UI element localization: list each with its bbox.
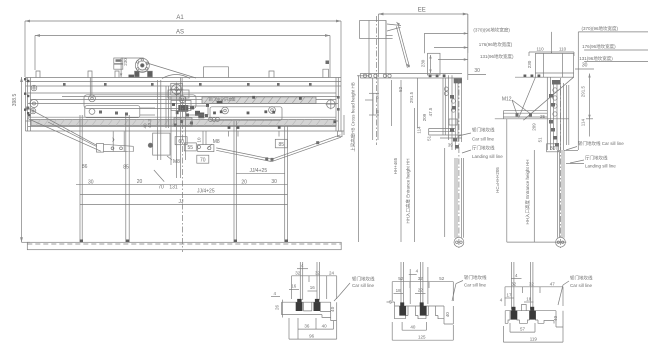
- sill2 dim 125: [392, 322, 453, 340]
- svg-text:40: 40: [322, 324, 328, 329]
- svg-text:40: 40: [410, 325, 416, 330]
- svg-text:209: 209: [531, 123, 536, 131]
- left cap bolt marks: [24, 78, 30, 116]
- svg-text:398.5: 398.5: [12, 94, 18, 107]
- right end cap: [336, 78, 344, 136]
- sill2 profile: [387, 302, 454, 324]
- svg-text:85: 85: [279, 142, 285, 148]
- svg-text:55: 55: [188, 145, 194, 151]
- mid sill leaders: [458, 133, 471, 136]
- bottom sill bar: [27, 242, 341, 249]
- svg-text:176(96地坎宽度): 176(96地坎宽度): [582, 43, 616, 50]
- svg-text:51: 51: [538, 137, 543, 143]
- bolt stack row: [209, 118, 220, 122]
- svg-text:40: 40: [553, 315, 558, 321]
- top tab 5: [323, 61, 329, 78]
- sill3 guide shoe 1: [511, 307, 517, 320]
- top tab 4: [269, 71, 274, 78]
- svg-text:131(96地坎宽度): 131(96地坎宽度): [480, 53, 514, 60]
- svg-text:Landing sill line: Landing sill line: [472, 154, 503, 159]
- svg-text:轿门地坎线: 轿门地坎线: [352, 276, 375, 283]
- sill3 guide shoe 2: [529, 307, 535, 320]
- right plate assembly: [547, 77, 569, 150]
- svg-text:20: 20: [137, 179, 143, 185]
- rail line 126.5: [28, 126, 336, 128]
- lower band bolts: [228, 120, 337, 129]
- right bottom circle: [556, 237, 566, 247]
- svg-text:110: 110: [559, 47, 567, 52]
- belt clamp dots on upper bar: [252, 96, 302, 100]
- svg-text:209: 209: [422, 113, 427, 121]
- bottom bar door ticks: [80, 240, 288, 243]
- svg-text:131: 131: [169, 185, 178, 191]
- rail line 3: [26, 85, 342, 87]
- rail line mid2: [28, 103, 338, 105]
- left end cap: [26, 78, 31, 132]
- rail bolts: [363, 74, 445, 77]
- sill3 dim row 32 32 47: [505, 287, 563, 306]
- right label stack: [578, 32, 648, 150]
- svg-text:M12: M12: [502, 97, 512, 103]
- center vane verticals: [158, 80, 169, 160]
- svg-text:25: 25: [540, 114, 546, 119]
- svg-text:110: 110: [537, 47, 545, 52]
- svg-text:30: 30: [474, 68, 480, 74]
- rail line mid: [62, 96, 338, 98]
- sill2 guide shoe 2: [420, 302, 427, 315]
- sill2 dim 40 bottom: [402, 322, 426, 330]
- svg-text:B: B: [376, 109, 379, 114]
- left roller small top: [31, 85, 37, 91]
- motor pulley: [114, 58, 196, 79]
- sill2 guide shoe 1: [399, 302, 406, 315]
- sill1 dim 4 top: [297, 263, 308, 269]
- rail line lower: [26, 120, 339, 122]
- svg-text:HH入口高度 Entrance height HH: HH入口高度 Entrance height HH: [524, 159, 531, 224]
- svg-text:291.5: 291.5: [409, 91, 414, 103]
- svg-text:291.5: 291.5: [581, 85, 586, 97]
- lower hatched track bar full: [31, 120, 336, 126]
- top tab 1: [36, 71, 40, 78]
- cross head post: [360, 16, 393, 145]
- rail bolt dots: [63, 83, 312, 86]
- left roller big: [30, 100, 38, 108]
- M12 leaders: [512, 100, 530, 113]
- svg-text:(370)(96地坎宽度): (370)(96地坎宽度): [473, 27, 510, 34]
- svg-text:Car sill line: Car sill line: [352, 283, 375, 288]
- svg-text:85: 85: [123, 165, 129, 171]
- svg-text:Landing sill line: Landing sill line: [585, 164, 616, 169]
- left roller small bottom: [30, 108, 36, 114]
- right sill lines: [564, 150, 578, 152]
- svg-text:JJ/4+25: JJ/4+25: [249, 168, 267, 174]
- svg-text:176(96地坎宽度): 176(96地坎宽度): [479, 41, 513, 48]
- sill1 door panel 2: [317, 262, 319, 300]
- rail line 93: [28, 92, 336, 94]
- sill1 guide shoe 2: [314, 299, 321, 311]
- door panel line 1: [79, 115, 81, 242]
- top tab 3: [115, 71, 119, 78]
- svg-text:Car sill line: Car sill line: [464, 282, 487, 287]
- svg-text:AS: AS: [176, 30, 184, 36]
- right end bolts: [337, 96, 340, 111]
- right arm: [216, 131, 342, 161]
- svg-text:47: 47: [550, 281, 556, 286]
- svg-text:轿门地坎线: 轿门地坎线: [570, 274, 593, 281]
- sill3 dim 4: [511, 273, 522, 279]
- svg-text:43.3: 43.3: [147, 119, 152, 128]
- dimension A1: [25, 20, 341, 131]
- sill2 door panel 1: [401, 262, 403, 303]
- svg-text:40: 40: [330, 306, 335, 312]
- svg-text:86: 86: [82, 164, 88, 170]
- svg-text:10: 10: [197, 137, 202, 143]
- dimension 398.5: [20, 77, 30, 242]
- band-to-bracket connectors: [203, 131, 279, 145]
- svg-text:47.5: 47.5: [428, 107, 433, 116]
- svg-text:230: 230: [527, 60, 532, 68]
- svg-text:80: 80: [550, 146, 556, 152]
- svg-text:32: 32: [418, 276, 424, 281]
- top tab 2: [88, 71, 92, 78]
- dim 110 110: [529, 32, 574, 56]
- dim JJ: [80, 204, 288, 206]
- center cluster outlines: [171, 101, 208, 127]
- svg-text:16: 16: [310, 285, 316, 290]
- svg-text:52: 52: [398, 86, 403, 92]
- svg-text:24: 24: [329, 270, 335, 275]
- hanger bolt verticals: [90, 78, 182, 96]
- svg-text:96: 96: [309, 333, 315, 338]
- svg-text:轿门地坎线: 轿门地坎线: [472, 127, 495, 134]
- coupler bracket right: [197, 145, 214, 152]
- door panel line 2: [125, 115, 127, 242]
- label 80 boxed: [547, 144, 559, 152]
- svg-text:32: 32: [295, 270, 301, 275]
- svg-text:JJ/4+25: JJ/4+25: [197, 188, 215, 194]
- center coupler: [148, 86, 189, 182]
- rail band bottom line: [26, 130, 345, 132]
- upper bar hatch: [204, 97, 313, 104]
- sill2 dim 4: [409, 269, 419, 275]
- svg-text:125: 125: [418, 334, 426, 339]
- svg-text:30: 30: [582, 62, 588, 68]
- label 70 boxed center: [197, 155, 209, 163]
- svg-text:20: 20: [241, 180, 247, 186]
- left arm pivot bolt: [26, 107, 29, 110]
- svg-text:HH入口高度 Entrance height HH: HH入口高度 Entrance height HH: [405, 158, 412, 223]
- right center dash line: [560, 78, 562, 248]
- mid plate assembly: [443, 75, 462, 237]
- left hanger plate: [84, 95, 196, 118]
- right sill arm: [495, 111, 569, 119]
- sill3 dim 57: [510, 323, 535, 332]
- svg-text:17: 17: [506, 292, 512, 297]
- rail line 99.5: [30, 99, 336, 101]
- svg-text:39: 39: [448, 143, 454, 148]
- sill2 ext verticals: [410, 267, 428, 304]
- svg-text:60: 60: [178, 139, 184, 145]
- label 85 right boxed: [275, 139, 287, 148]
- rail line 117: [28, 116, 336, 118]
- mid label stack: [424, 14, 467, 80]
- sill1 dim 96: [289, 318, 337, 339]
- dimension AS: [35, 34, 330, 77]
- center coupler cross circle: [170, 83, 183, 96]
- svg-text:114: 114: [581, 119, 586, 127]
- svg-text:36: 36: [304, 324, 310, 329]
- mid door panels: [455, 158, 464, 238]
- svg-text:30: 30: [88, 179, 94, 185]
- header rail band top line: [26, 77, 342, 79]
- svg-text:轿门地坎线: 轿门地坎线: [464, 274, 487, 281]
- sill2 dim row 52 32 52: [392, 282, 453, 301]
- right hanger plate: [210, 107, 282, 121]
- svg-text:70: 70: [200, 158, 206, 164]
- mid bottom circle: [454, 237, 464, 247]
- center dense cluster: [172, 101, 223, 119]
- svg-text:32: 32: [529, 281, 535, 286]
- lower bar hatch: [36, 120, 337, 126]
- svg-text:HC=HH+205: HC=HH+205: [495, 167, 500, 193]
- label cross head height: [357, 75, 359, 242]
- svg-text:230: 230: [421, 59, 426, 67]
- svg-text:上梁高度HB Cross head height HB: 上梁高度HB Cross head height HB: [350, 82, 357, 152]
- svg-text:32: 32: [511, 281, 517, 286]
- sill3 dim 119: [503, 326, 563, 342]
- svg-text:114: 114: [416, 126, 421, 134]
- svg-text:(370)(96地坎宽度): (370)(96地坎宽度): [582, 25, 619, 32]
- svg-text:30: 30: [271, 179, 277, 185]
- svg-text:JJ: JJ: [179, 199, 185, 205]
- svg-text:Car sill line: Car sill line: [472, 137, 495, 142]
- label 55 boxed: [184, 143, 196, 151]
- svg-text:轿门(中分)开启图: 轿门(中分)开启图: [209, 97, 236, 102]
- svg-text:厅门地坎线: 厅门地坎线: [472, 145, 495, 152]
- svg-text:32: 32: [315, 270, 321, 275]
- svg-text:52: 52: [439, 276, 445, 281]
- left arm: [28, 108, 134, 152]
- svg-text:16: 16: [291, 284, 297, 289]
- svg-text:40: 40: [445, 312, 450, 318]
- right dim stack: [589, 74, 591, 137]
- sill1 guide shoe 1: [296, 299, 303, 311]
- upper hatched track bar right: [202, 97, 316, 104]
- right bracket box: [535, 53, 573, 77]
- rail line 2: [26, 81, 342, 83]
- dimension EE: [379, 13, 468, 34]
- svg-text:M8: M8: [213, 139, 220, 145]
- right plate bolts: [213, 110, 275, 114]
- sill2 door panel 2: [421, 262, 423, 303]
- sill1 dim row 32 32 24: [292, 276, 337, 299]
- right sill leaders: [566, 147, 577, 151]
- right arm bolts: [265, 141, 319, 161]
- svg-text:230: 230: [123, 58, 128, 66]
- center cluster lower bolts: [174, 120, 193, 127]
- svg-text:57: 57: [520, 327, 526, 332]
- center line dash-dot: [182, 100, 184, 252]
- tension arm diagonal: [387, 22, 410, 68]
- sill1 door panel 1: [300, 262, 302, 300]
- svg-text:51: 51: [426, 135, 431, 141]
- right rail bolts: [524, 75, 541, 78]
- label 60 boxed: [175, 137, 187, 145]
- svg-text:26: 26: [274, 305, 279, 311]
- mid top rail bar: [357, 74, 462, 79]
- svg-text:EE: EE: [418, 8, 426, 14]
- dim row 30-20-70-131: [76, 185, 288, 195]
- svg-text:HH+465: HH+465: [393, 157, 398, 174]
- mid bracket 230: [428, 53, 441, 75]
- svg-text:厅门地坎线: 厅门地坎线: [585, 155, 608, 162]
- svg-text:轿门地坎线 Car sill line: 轿门地坎线 Car sill line: [578, 140, 624, 147]
- sill1 profile: [282, 302, 337, 320]
- mid sill bracket: [429, 129, 462, 139]
- right door panels: [558, 150, 565, 238]
- mid center dash line: [458, 78, 460, 248]
- door panel line 3: [233, 121, 235, 242]
- svg-text:119: 119: [530, 336, 538, 341]
- svg-text:22: 22: [418, 287, 424, 292]
- svg-text:52: 52: [398, 276, 404, 281]
- svg-text:18: 18: [396, 288, 402, 293]
- svg-text:18: 18: [526, 296, 532, 301]
- svg-text:M8: M8: [173, 159, 180, 165]
- svg-text:A1: A1: [176, 15, 184, 21]
- svg-text:70: 70: [158, 185, 164, 191]
- right height dims: [506, 119, 508, 242]
- sill3 profile: [505, 305, 563, 328]
- svg-text:131(96地坎宽度): 131(96地坎宽度): [579, 55, 613, 62]
- top wide bracket: [204, 67, 229, 78]
- sill3 door panel 2: [531, 262, 533, 309]
- sill1 dim 36 40: [298, 318, 334, 339]
- dim JJ4+25 right: [236, 172, 284, 174]
- right cross pulley: [326, 99, 336, 109]
- door panel line 4: [284, 126, 286, 242]
- right bracket diagonals: [519, 77, 574, 120]
- mid height dims: [400, 80, 402, 242]
- svg-text:Car sill line: Car sill line: [570, 283, 593, 288]
- sill3 door panel 1: [512, 262, 514, 309]
